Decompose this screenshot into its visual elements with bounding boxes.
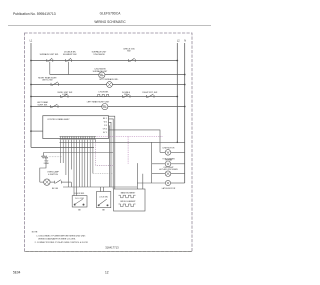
wire rung4: [31, 96, 177, 98]
junction L2 bus: [177, 142, 179, 144]
wire bottom bus: [63, 186, 137, 188]
svg-text:BROIL ELEMENT: BROIL ELEMENT: [120, 201, 136, 203]
wire bus to N: [60, 141, 185, 143]
surface element E1 (circle with zigzag): [99, 72, 105, 78]
wire rung3: [31, 84, 185, 86]
svg-text:BAKE ELEMENT: BAKE ELEMENT: [121, 191, 136, 194]
wire rung2: [50, 74, 185, 76]
svg-text:RIGHT FRT. SW.: RIGHT FRT. SW.: [142, 92, 158, 94]
control panel box U1: [43, 116, 109, 139]
wire box pin4: [108, 126, 111, 187]
indicator lamp HS1 hot surface: [107, 82, 113, 88]
dashed console boundary horizontal: [97, 135, 164, 137]
svg-text:N.O. COM: N.O. COM: [75, 198, 84, 200]
svg-text:LEFT REAR SURF. UNIT: LEFT REAR SURF. UNIT: [87, 101, 110, 104]
svg-text:WIRING SCHEMATIC: WIRING SCHEMATIC: [94, 20, 126, 24]
L2 rail: [176, 43, 178, 142]
junction L2 rung1: [176, 60, 178, 62]
svg-text:BK 1: BK 1: [103, 118, 107, 120]
connector pin wires descending: [61, 140, 96, 196]
dotted wire from fuse: [49, 156, 62, 158]
svg-text:N: N: [184, 39, 186, 42]
junction N rung5: [184, 106, 186, 108]
bake element zigzag: [119, 195, 136, 198]
wire box pin1: [109, 116, 115, 189]
svg-text:SW.: SW.: [127, 51, 131, 53]
wire rung1: [31, 60, 177, 62]
svg-text:ELEMENT SW.: ELEMENT SW.: [63, 54, 77, 56]
svg-text:FUSE: FUSE: [44, 163, 50, 165]
wire L1 bottom corner: [31, 146, 94, 148]
schematic frame (dashed border): [25, 33, 193, 252]
wire rung5: [31, 106, 185, 108]
svg-text:BK: BK: [102, 210, 105, 212]
element humps rung4: [97, 94, 110, 96]
junction L1 box feed: [30, 130, 32, 132]
broil element zigzag: [119, 204, 136, 207]
svg-text:CONTROL PANEL ASSY: CONTROL PANEL ASSY: [47, 118, 70, 121]
wire drop to door box B: [103, 187, 105, 192]
svg-text:1750W BR.: 1750W BR.: [98, 92, 109, 94]
switch S3 right oven sw: [129, 58, 136, 62]
wire DS2: [152, 173, 166, 175]
lock switch box B: [97, 192, 111, 208]
svg-text:GLEFS79DCA: GLEFS79DCA: [100, 11, 122, 15]
door switch box A: [72, 196, 87, 207]
svg-text:L2: L2: [177, 39, 180, 42]
switch S6: [123, 94, 131, 98]
switch S5: [61, 94, 69, 98]
svg-text:1. DISCONNECT POWER BEFORE SER: 1. DISCONNECT POWER BEFORE SERVICING UNI…: [36, 236, 86, 238]
lamp DS2 circle: [165, 171, 171, 177]
wire M1: [160, 151, 165, 153]
junction L1 rung1: [30, 60, 32, 62]
switch S8: [51, 104, 59, 108]
junction L1 rung4: [30, 96, 32, 98]
vertical wire to element box left: [136, 163, 138, 189]
wire box pin3: [109, 122, 112, 187]
dashed wire pin14 to riser: [96, 142, 114, 165]
svg-text:BK GN: BK GN: [52, 188, 59, 190]
svg-text:HR FAN: HR FAN: [165, 158, 173, 161]
switch S9 oven light: [50, 180, 71, 184]
frame bottom edge solid overlay: [25, 251, 193, 253]
wire M3: [137, 182, 165, 184]
svg-text:LINE MOTOR: LINE MOTOR: [163, 148, 175, 150]
oven lamp DS1: [40, 181, 44, 183]
wire box pin5 long to lamp column: [109, 130, 161, 153]
svg-text:Publication No. 5995419713: Publication No. 5995419713: [13, 12, 56, 16]
vertical wire to element box right: [142, 174, 144, 189]
svg-text:BK: BK: [78, 210, 81, 212]
svg-text:NOTE:: NOTE:: [32, 232, 39, 234]
svg-text:SURF. SW.: SURF. SW.: [37, 104, 47, 106]
wire branch riser: [44, 153, 114, 157]
switch S4 right rear surface unit sw: [51, 82, 59, 86]
vertical feed for lamps column: [151, 142, 153, 183]
svg-text:R 3: R 3: [104, 125, 107, 127]
dashed console boundary vertical: [127, 136, 129, 163]
svg-text:SW.: SW.: [124, 94, 128, 96]
motor M2 circle: [165, 161, 171, 167]
element box C: [114, 189, 146, 211]
switch inside box A: [74, 199, 84, 205]
svg-text:LOCK SW.: LOCK SW.: [99, 197, 108, 199]
motor M3 latch: [165, 180, 170, 185]
switch S2 double broil sw: [66, 58, 72, 74]
wire L1 to box: [31, 130, 43, 132]
svg-text:5E04: 5E04: [13, 271, 21, 275]
svg-text:DOOR SW.: DOOR SW.: [75, 193, 85, 195]
junction L2 rung4: [176, 96, 178, 98]
junction L1 rung3: [30, 84, 32, 86]
svg-text:2. CONNECTOR REF. P1 IS AT OVE: 2. CONNECTOR REF. P1 IS AT OVEN CONTROL …: [35, 241, 89, 244]
svg-text:OR 4: OR 4: [103, 129, 107, 131]
svg-text:& SW.: & SW.: [62, 94, 68, 96]
svg-text:W 2: W 2: [104, 122, 107, 124]
switch inside box B: [98, 199, 108, 206]
svg-text:1250/3000W: 1250/3000W: [93, 54, 104, 56]
svg-text:SURFACE UNIT: SURFACE UNIT: [93, 70, 108, 73]
svg-text:& SWITCH: & SWITCH: [48, 174, 58, 176]
wire M2: [152, 163, 166, 165]
svg-text:HOT SURFACE IND.: HOT SURFACE IND.: [100, 78, 119, 81]
fuse F1 (thermal): [42, 156, 48, 158]
connector P1 strip: [60, 136, 97, 139]
surface element E2: [102, 104, 108, 110]
switch S7: [147, 94, 155, 98]
box pin labels right side: [103, 118, 107, 134]
svg-text:GY 5: GY 5: [103, 132, 107, 134]
N rail: [184, 43, 186, 183]
L1 rail: [30, 43, 32, 147]
switch S1 surface unit sw: [47, 58, 53, 74]
svg-text:316417713: 316417713: [105, 245, 119, 249]
wire drop to door box A: [100, 187, 102, 192]
dotted wire pin13 to riser: [93, 172, 113, 174]
svg-text:WIRING DIAGRAM FOR WIRE COLORS: WIRING DIAGRAM FOR WIRE COLORS.: [38, 238, 76, 241]
svg-text:SURFACE UNIT SW.: SURFACE UNIT SW.: [40, 53, 59, 56]
wire box pin2: [109, 119, 114, 189]
svg-text:12: 12: [105, 271, 109, 275]
junction N rung2: [184, 74, 186, 76]
svg-text:UNIT & SW.: UNIT & SW.: [42, 80, 53, 82]
wire lamp feed: [40, 158, 46, 182]
svg-text:L1: L1: [30, 39, 33, 42]
wire switch drop: [70, 182, 72, 187]
header rule: [8, 25, 211, 27]
svg-text:LATCH MOTOR: LATCH MOTOR: [162, 187, 176, 190]
junction N rung3: [184, 84, 186, 86]
junction L1 rung5: [30, 106, 32, 108]
svg-text:HOT AIR CIRCULATE: HOT AIR CIRCULATE: [159, 168, 178, 171]
motor M1 circle: [165, 150, 171, 156]
